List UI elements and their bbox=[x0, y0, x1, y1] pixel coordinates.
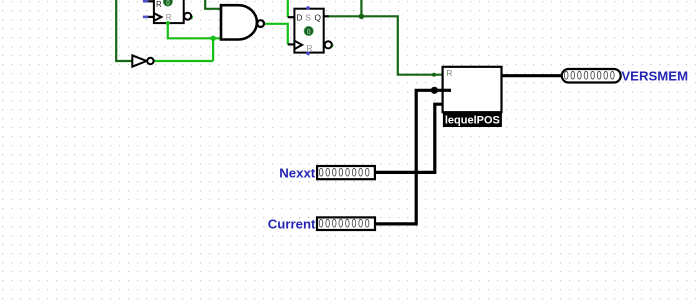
wire net B (0) to NAND top input bbox=[205, 0, 221, 9]
svg-text:lequelPOS: lequelPOS bbox=[445, 115, 500, 127]
U2 reset pin dot bottom (blue, unconnected) bbox=[306, 52, 310, 56]
svg-text:0: 0 bbox=[166, 0, 170, 7]
bus pin 1 stub inside box bbox=[443, 89, 451, 92]
U2 clock wedge bbox=[294, 41, 302, 49]
junction dot on bus at lequelPOS pin 1 bbox=[431, 87, 438, 94]
flip-flop U2 (D flip-flop) bbox=[294, 6, 333, 55]
U1 state disc 0 bbox=[163, 0, 172, 6]
wire net C (1): U1 reset pin to NAND bottom input and inverter output bbox=[154, 23, 221, 61]
inverter G2 bbox=[132, 55, 153, 66]
wire net A (0) to inverter input bbox=[116, 0, 132, 61]
input pin Nexxt bbox=[279, 165, 375, 180]
bus Current (8-bit) to lequelPOS pin 1 bbox=[375, 90, 451, 224]
svg-text:00000000: 00000000 bbox=[319, 166, 372, 180]
U1 bottom async pin dot (green, connected) bbox=[166, 21, 170, 25]
U1 inverted output bubble bbox=[184, 13, 191, 20]
bus Nexxt (8-bit) to lequelPOS pin 2 bbox=[375, 104, 443, 172]
junction on net C bbox=[210, 36, 215, 41]
svg-text:00000000: 00000000 bbox=[319, 218, 372, 232]
svg-text:VERSMEM: VERSMEM bbox=[621, 69, 688, 84]
NAND gate G1 bbox=[221, 5, 264, 39]
svg-text:R: R bbox=[166, 13, 172, 22]
U2 set pin dot top (blue, unconnected) bbox=[306, 6, 310, 10]
junction on net Q bbox=[359, 13, 365, 19]
flip-flop U1 (S-R, cut off at top) bbox=[143, 0, 193, 25]
pin stub U2 Q output bbox=[324, 15, 329, 17]
svg-text:D: D bbox=[296, 12, 302, 22]
junction dot at lequelPOS R pin bbox=[432, 73, 436, 77]
G1 output bubble bbox=[257, 20, 264, 27]
output pin VERSMEM bbox=[562, 69, 688, 84]
U2 inverted output bubble bbox=[325, 41, 332, 48]
svg-text:0: 0 bbox=[307, 27, 311, 36]
svg-text:R: R bbox=[156, 0, 162, 9]
svg-text:Current: Current bbox=[268, 217, 316, 232]
wire net Q (0): flip-flop U2 Q output to lequelPOS R pin bbox=[328, 0, 442, 75]
U1 clock stub (unconnected) bbox=[146, 16, 154, 18]
U1 inverted output pin dot (value 1) bbox=[188, 15, 193, 20]
svg-text:R: R bbox=[446, 68, 452, 78]
U1 clock wedge bbox=[154, 13, 162, 21]
svg-text:Q: Q bbox=[314, 12, 321, 22]
wire net E (1): from top to U2 D input bbox=[287, 0, 289, 17]
U1 R input stub (unconnected) bbox=[146, 0, 154, 2]
svg-text:S: S bbox=[305, 12, 311, 22]
U2 inverted output pin dot (value 1) bbox=[329, 43, 334, 48]
pin stub U2 D input bbox=[288, 16, 295, 18]
bus lequelPOS output to VERSMEM pin bbox=[502, 74, 562, 77]
svg-text:R: R bbox=[306, 43, 312, 53]
lequelPOS name label box bbox=[443, 112, 502, 127]
U2 state disc 0 bbox=[304, 27, 313, 36]
subcircuit lequelPOS bbox=[443, 67, 502, 127]
wire net D (1): NAND output to U2 clock bbox=[264, 24, 288, 45]
svg-text:00000000: 00000000 bbox=[564, 69, 617, 83]
input pin Current bbox=[268, 217, 375, 232]
svg-text:Nexxt: Nexxt bbox=[279, 165, 316, 180]
pin stub U2 clock bbox=[288, 43, 295, 45]
G2 output bubble bbox=[147, 58, 153, 64]
